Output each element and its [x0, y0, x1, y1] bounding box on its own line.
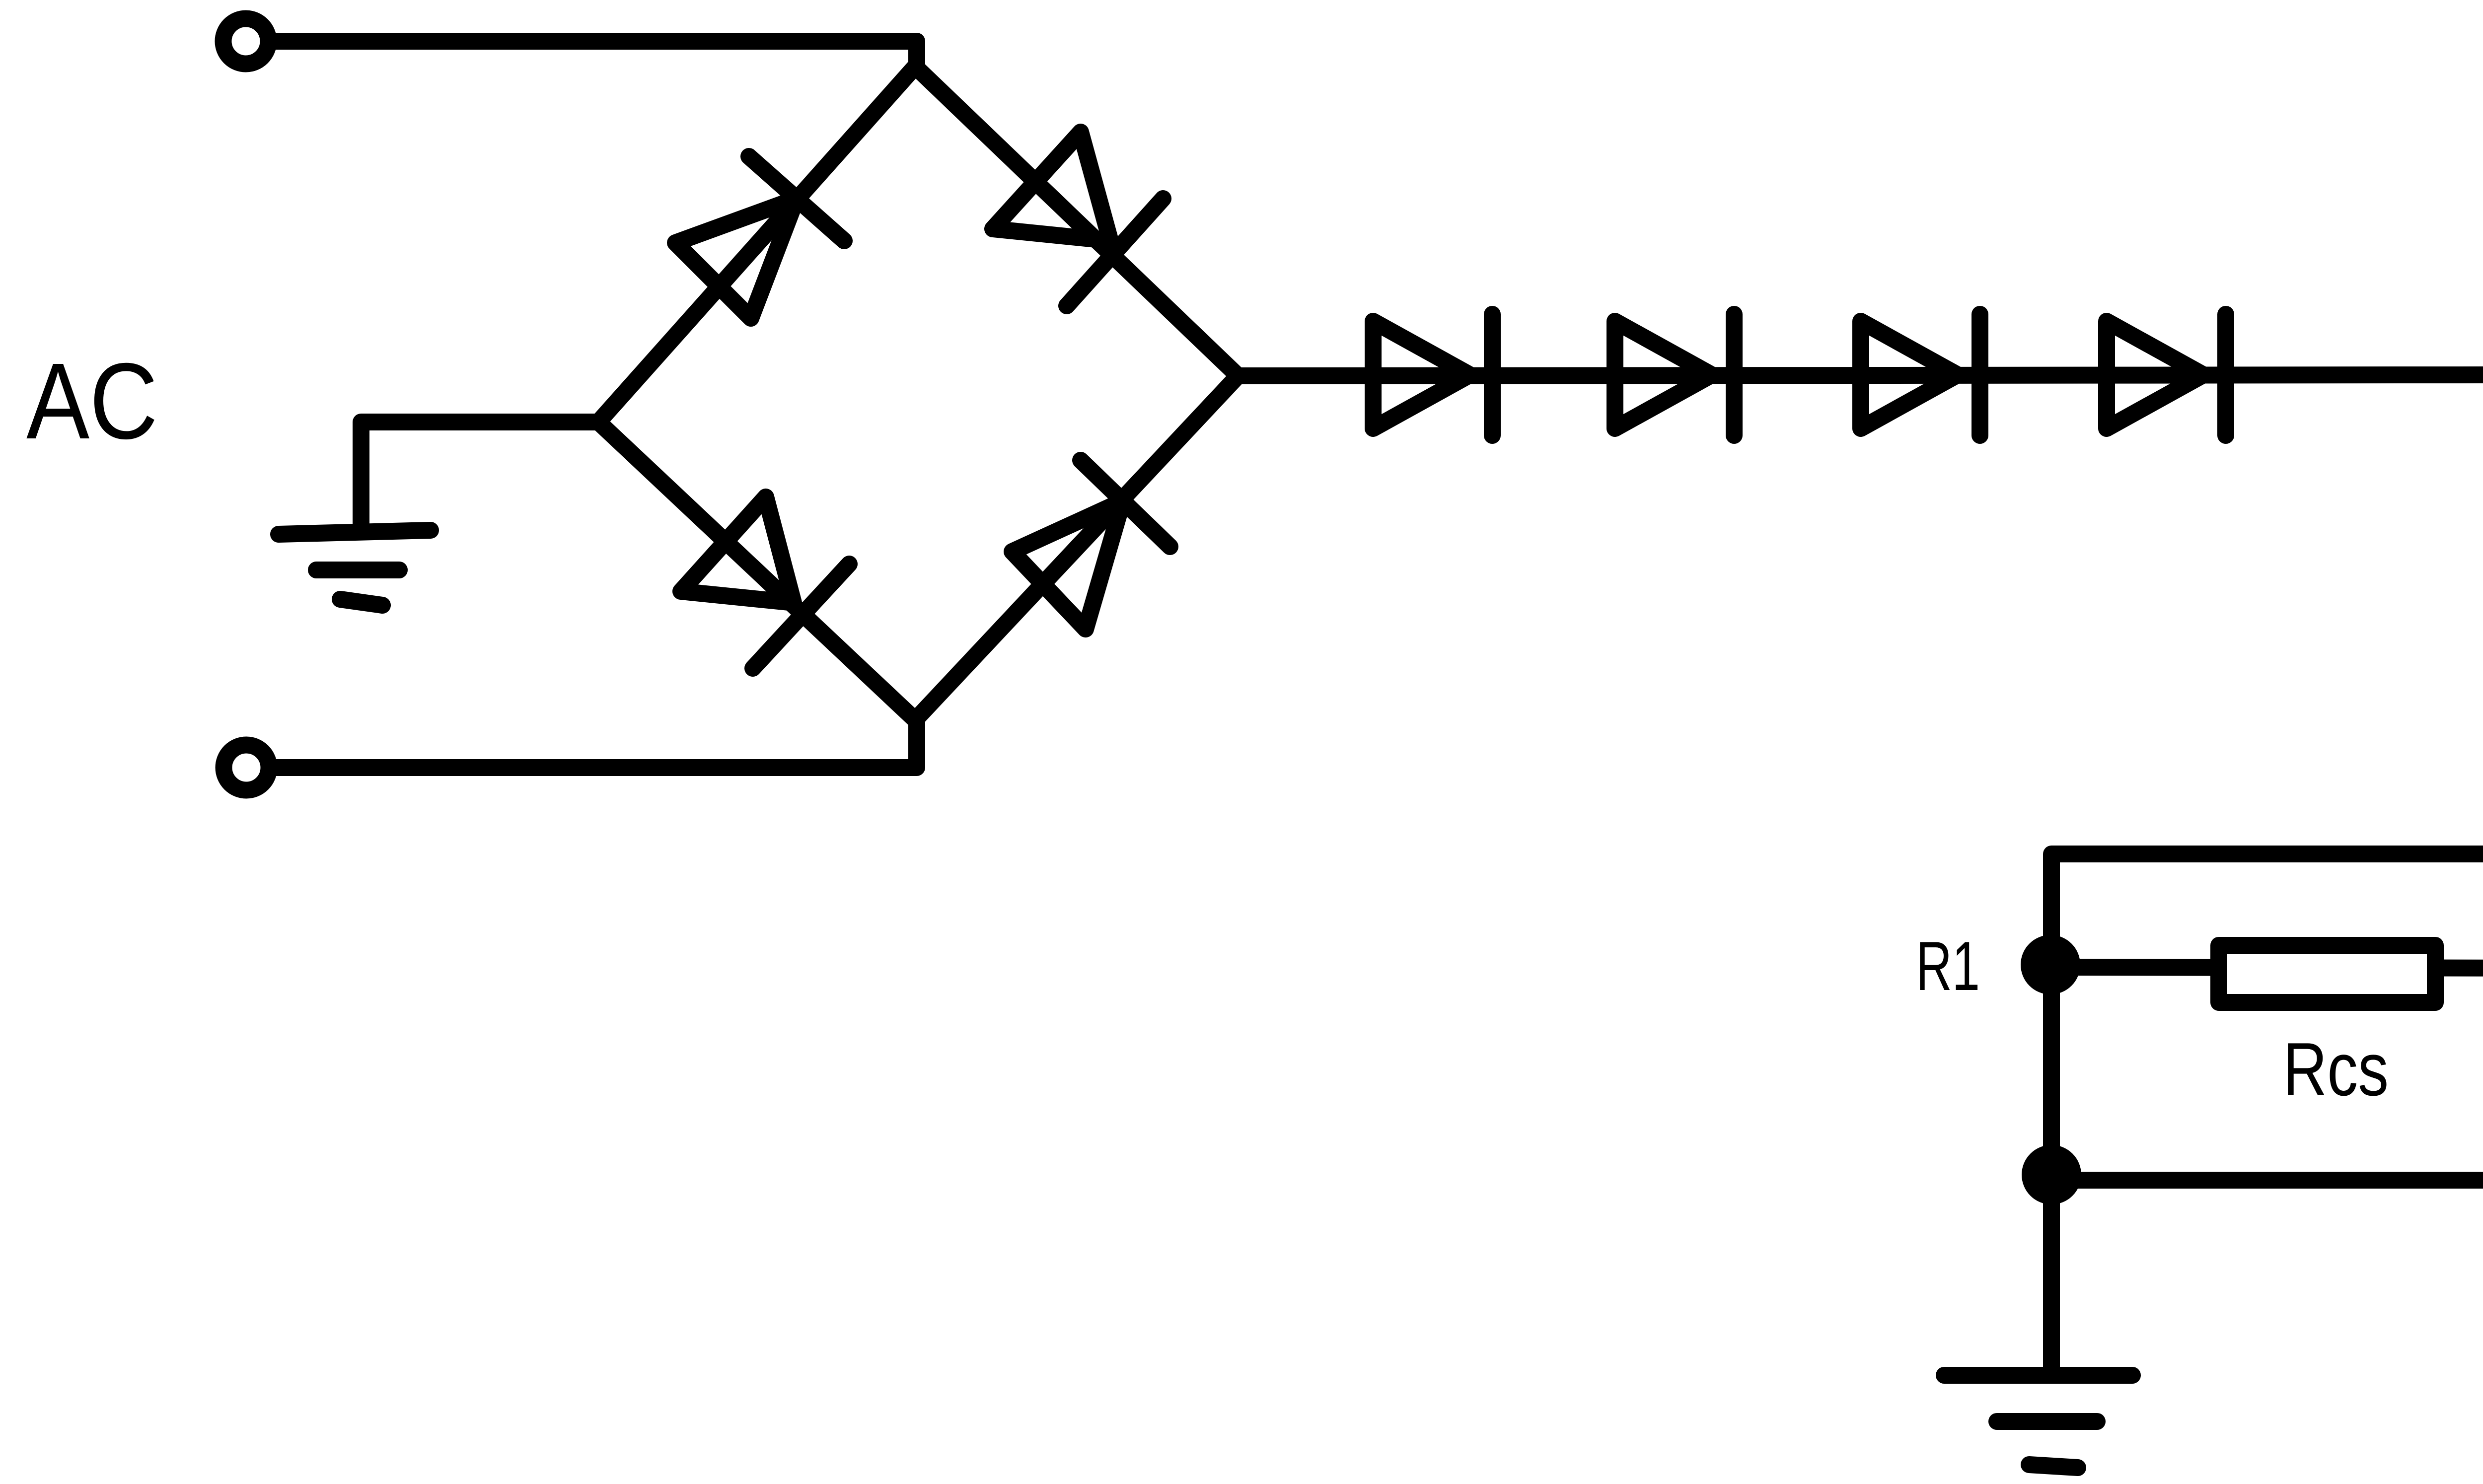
- series diode D3: [1861, 314, 1980, 435]
- series diode D2: [1615, 314, 1734, 435]
- svg-text:Rcs: Rcs: [2283, 1027, 2389, 1112]
- wire AC mid to ground: [361, 422, 598, 527]
- bridge diode upper-left: [675, 156, 844, 318]
- wire bottom terminal to bridge bottom: [270, 720, 917, 768]
- bridge diode lower-right: [1012, 460, 1170, 629]
- svg-text:AC: AC: [26, 341, 158, 462]
- wire top terminal to bridge top: [269, 41, 917, 67]
- ground (bottom, main): [1944, 1375, 2132, 1468]
- ground (AC input): [279, 530, 431, 605]
- node bottom-left junction dot: [2022, 1145, 2081, 1204]
- bridge diode upper-right: [993, 132, 1163, 306]
- node bridge diamond (wires T-L-B-R): [598, 67, 1238, 720]
- terminal AC bottom: [224, 745, 269, 790]
- wire R1 node to Rcs to Rext pin: [2051, 967, 2483, 968]
- series diode D4: [2107, 314, 2226, 435]
- resistor Rcs: [2219, 945, 2435, 1002]
- wire GND net: left vertical riser: [2051, 854, 2483, 1373]
- svg-text:R1: R1: [1916, 927, 1980, 1005]
- bridge diode lower-left: [681, 497, 849, 668]
- wire bottom rail left of C1: [2051, 1172, 2483, 1189]
- series diode D1: [1373, 314, 1492, 435]
- terminal AC top: [223, 19, 269, 64]
- wire bridge output to diode string (solid): [1238, 375, 2483, 376]
- node R1 junction dot: [2021, 935, 2080, 994]
